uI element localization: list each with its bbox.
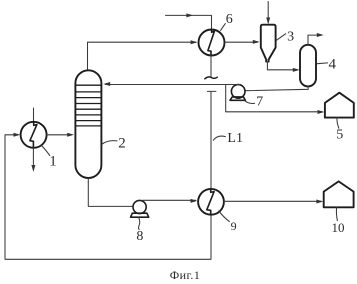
wire recycle loop from exchanger 9 bottom to exchanger 1 [5, 135, 211, 259]
arrow into separator 3 [253, 40, 260, 44]
wire feed into separator 3 top [267, 2, 269, 23]
svg-text:2: 2 [118, 136, 126, 152]
label 6 leader [221, 24, 226, 31]
arrow into tank 5 [318, 110, 325, 114]
wire L1 line down to exchanger 9 [210, 91, 212, 188]
wire 6 to separator 3 [225, 41, 258, 43]
svg-text:6: 6 [226, 12, 233, 27]
trays of column 2 [75, 85, 101, 126]
column 2 [75, 70, 101, 178]
arrow into vessel 4 [293, 68, 300, 72]
drain hook below 6 [205, 77, 217, 79]
wire pump 7 reflux to column 2 [106, 84, 241, 86]
svg-text:L1: L1 [227, 131, 243, 146]
wire feed to exchanger 6 top [166, 15, 212, 29]
heat exchanger U6 [199, 30, 225, 56]
label 9 leader [219, 211, 230, 222]
svg-text:8: 8 [136, 229, 143, 244]
wire vessel 4 bottom to pump 7 [245, 86, 308, 90]
heat exchanger U9 [198, 189, 224, 215]
arrow into 3 top [266, 18, 270, 25]
wire 3 bottom to vessel 4 [267, 62, 297, 70]
pump 8 [131, 200, 149, 217]
svg-text:Фиг.1: Фиг.1 [170, 268, 200, 282]
node L1 stub cap [207, 90, 216, 92]
label 10 leader [335, 208, 338, 221]
arrow into tank 10 [316, 200, 323, 204]
arrow into exchanger 6 left [191, 40, 198, 44]
label L1 leader [213, 136, 225, 140]
tank 5 [325, 93, 354, 118]
svg-text:9: 9 [231, 219, 237, 233]
arrow down from exchanger 1 [31, 165, 35, 172]
arrow on feed to 6 [186, 13, 193, 17]
arrow into column 2 top right [103, 82, 110, 86]
vessel 4 [300, 45, 316, 87]
wire column 2 bottom to pump 8 [88, 178, 133, 206]
heat exchanger U1 [21, 122, 47, 148]
svg-text:10: 10 [332, 220, 345, 235]
label 2 leader [102, 141, 117, 145]
label 1 leader [42, 145, 50, 155]
pump 7 [230, 85, 245, 101]
wire into exchanger 1 top [33, 108, 35, 122]
tank 10 [324, 181, 354, 207]
wire exchanger 9 to tank 10 [224, 200, 321, 202]
wire column 2 top to exchanger 6 [88, 42, 196, 70]
wire pump 8 to exchanger 9 [143, 199, 196, 201]
arrow into exchanger 9 left [191, 199, 198, 203]
label 8 leader [138, 217, 139, 229]
wire drain below exchanger 6 [210, 56, 212, 78]
svg-text:3: 3 [287, 29, 294, 44]
separator 3 (cyclone) [261, 25, 276, 62]
arrow on 4 outlet [317, 33, 324, 37]
label 7 leader [245, 101, 255, 104]
svg-text:5: 5 [336, 128, 343, 143]
svg-text:7: 7 [256, 95, 263, 110]
arrow into exchanger 1 left [14, 133, 21, 137]
wire branch to tank 5 [226, 85, 323, 112]
label 3 leader [276, 34, 285, 41]
svg-text:4: 4 [328, 56, 336, 72]
arrow into column 2 left [67, 133, 74, 137]
wire exchanger 1 to column 2 [47, 134, 72, 136]
wire exchanger 1 bottom outlet [32, 148, 34, 165]
label 5 leader [337, 118, 339, 128]
label 4 leader [317, 62, 327, 65]
wire vessel 4 top outlet [308, 35, 322, 45]
svg-text:1: 1 [49, 154, 57, 170]
